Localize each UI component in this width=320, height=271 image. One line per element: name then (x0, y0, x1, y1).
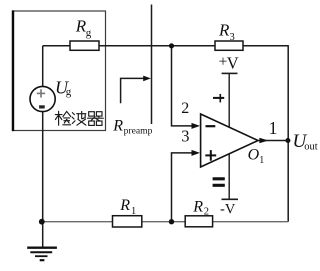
svg-text:preamp: preamp (124, 126, 153, 137)
svg-text:R: R (218, 21, 230, 40)
svg-text:-V: -V (220, 201, 236, 217)
svg-text:1: 1 (131, 206, 136, 217)
svg-text:g: g (86, 27, 92, 39)
svg-text:2: 2 (204, 206, 209, 217)
svg-text:O: O (248, 147, 260, 164)
svg-text:R: R (119, 197, 130, 214)
svg-text:R: R (192, 199, 203, 216)
svg-text:3: 3 (230, 32, 235, 43)
svg-text:g: g (66, 86, 72, 98)
svg-text:out: out (304, 142, 318, 153)
svg-text:2: 2 (181, 100, 189, 117)
svg-text:1: 1 (269, 118, 278, 138)
svg-text:1: 1 (259, 155, 264, 166)
svg-text:V: V (227, 53, 239, 72)
svg-text:R: R (112, 118, 123, 135)
svg-text:3: 3 (181, 127, 189, 146)
